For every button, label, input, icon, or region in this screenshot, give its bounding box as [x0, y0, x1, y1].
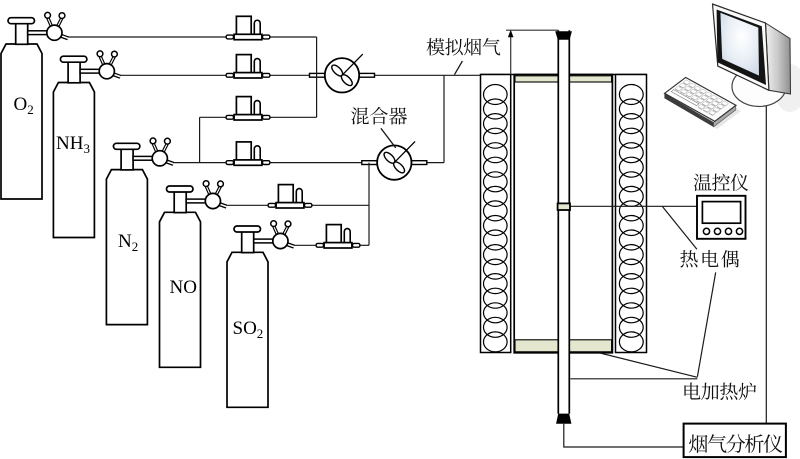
gas mixer 1 pipe stubs: [310, 73, 375, 77]
gas cylinder N2 with pressure regulator: [106, 138, 173, 325]
monitor drop shadow: [774, 64, 800, 112]
monitor side panel: [766, 23, 791, 94]
heating coil right column: [616, 75, 647, 353]
heating coil left column: [481, 75, 511, 353]
wire mixer label leader: [381, 128, 396, 148]
gas mixer 2: [377, 141, 415, 179]
mass flow meter FM5 (NO): [268, 185, 312, 208]
wire tube outlet to flue gas analyzer: [564, 424, 684, 447]
wire NO to FM5: [227, 204, 269, 206]
wire thermocouple label to tube leader: [697, 272, 715, 376]
keyboard shadow: [700, 106, 741, 129]
wire thermocouple wire to temperature controller: [566, 205, 696, 207]
wire N2 to FM4: [174, 162, 227, 164]
label flue gas analyzer (yan qi fen xi yi): [689, 434, 782, 453]
wire FM3 left to N2 branch: [200, 116, 227, 118]
wire flue gas label tick: [455, 61, 463, 75]
wire mixer 1 outlet pipe to furnace: [359, 74, 482, 76]
monitor screen: [720, 13, 759, 76]
wire furnace label leader: [600, 353, 697, 377]
monitor casing: [713, 4, 769, 90]
mass flow meter FM2 (NH3): [226, 55, 270, 78]
wire mixer 2 outlet: [412, 162, 445, 164]
wire NH3 to FM2: [121, 74, 227, 76]
monitor front bezel: [717, 10, 766, 86]
thermocouple junction on tube: [558, 203, 570, 210]
wire FM2 to mixer 1: [270, 74, 326, 76]
wire O2 to FM1: [67, 36, 227, 38]
wire computer to analyzer wire: [765, 104, 767, 424]
label electric furnace (dian jia re lu): [684, 382, 756, 400]
gas mixer 2 pipe stubs: [362, 161, 427, 165]
flue gas analyzer box: [684, 424, 786, 458]
wire manifold riser 1: [316, 37, 318, 117]
gas cylinder NO with pressure regulator: [160, 181, 227, 368]
reactor tube: [558, 30, 569, 414]
flue gas up arrow line: [510, 36, 512, 75]
tube bottom cap: [556, 414, 571, 424]
wire FM4 to mixer 2: [270, 162, 378, 164]
wire leader to tube (thermocouple probe): [570, 378, 697, 380]
label temperature controller (wen kong yi): [694, 174, 749, 191]
furnace top edge: [481, 74, 647, 76]
mass flow meter FM4 (N2 carrier): [226, 142, 270, 165]
label thermocouple (re dian ou): [680, 250, 739, 267]
gas cylinder O2 with pressure regulator: [1, 12, 68, 199]
wire FM1 to manifold: [270, 36, 317, 38]
mass flow meter FM6 (SO2): [316, 225, 360, 248]
furnace bottom insulation bar: [515, 340, 612, 352]
wire mixer 2 riser to main pipe: [443, 75, 445, 162]
gas cylinder NH3 with pressure regulator: [53, 51, 120, 238]
wire SO2 to FM6: [294, 244, 317, 246]
label simulated flue gas (mo ni yan qi): [427, 38, 501, 56]
computer keyboard: [664, 77, 736, 127]
mass flow meter FM1 (O2): [226, 16, 270, 39]
gas mixer 1: [325, 54, 363, 92]
gas cylinder SO2 with pressure regulator: [227, 221, 294, 408]
tube top cap: [555, 31, 572, 40]
wire N2 branch riser: [199, 117, 201, 162]
furnace chamber: [514, 75, 612, 353]
wire wire to thermocouple label: [662, 206, 697, 249]
svg-text:NO: NO: [170, 277, 197, 298]
computer base ellipse: [732, 67, 786, 107]
label mixer (hun he qi): [351, 107, 407, 125]
mass flow meter FM3 (N2): [226, 97, 270, 120]
wire FM6 to manifold 2: [360, 244, 370, 246]
temperature controller box: [697, 196, 746, 239]
wire FM3 to manifold: [270, 116, 317, 118]
wire manifold riser 2: [368, 163, 370, 246]
furnace top insulation bar: [515, 76, 612, 82]
tube top inlet line: [506, 29, 558, 31]
wire FM5 to manifold 2: [312, 204, 370, 206]
flue gas arrowhead: [508, 30, 514, 37]
